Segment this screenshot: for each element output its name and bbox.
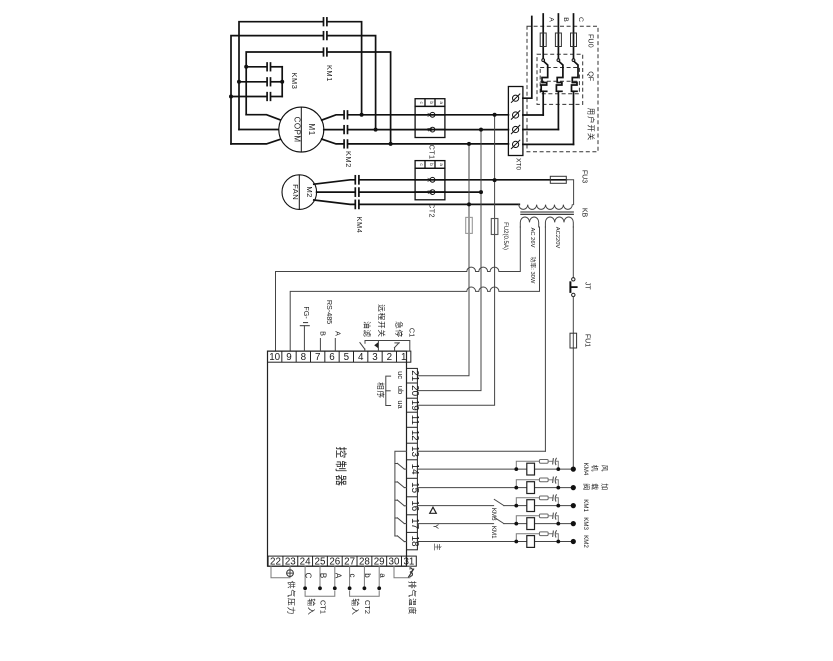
svg-text:22: 22: [270, 557, 281, 568]
contactor KM2 contact 2: [344, 126, 347, 134]
wire phase B sense to terminal 20: [417, 130, 481, 391]
wire M2 phase 1 to CT2: [314, 180, 567, 184]
svg-text:CT2: CT2: [363, 600, 372, 614]
svg-text:CT1: CT1: [319, 600, 328, 614]
wire CT1 input A terminal 26: [333, 566, 343, 590]
junction node KM3-2: [237, 80, 241, 84]
wire M1 phase 1 to CT1 and XT0: [322, 115, 509, 120]
svg-text:排气温度: 排气温度: [407, 581, 417, 615]
wire M1 phase 3 to XT0: [322, 139, 509, 144]
svg-text:a: a: [439, 101, 444, 104]
current transformer CT2: [415, 161, 445, 200]
svg-text:功率: 30W: 功率: 30W: [529, 257, 537, 284]
wire KM3 star line 1: [246, 66, 282, 68]
XT0 terminal 3: [511, 125, 520, 134]
svg-text:6: 6: [329, 352, 335, 363]
svg-text:QF: QF: [587, 71, 596, 82]
label 风机 KM4: [582, 463, 608, 476]
bracket 相序: [386, 376, 391, 405]
user switch dashed enclosure 用户开关: [527, 26, 598, 151]
svg-text:12: 12: [409, 430, 420, 441]
snubber RC row 15: [516, 476, 558, 487]
transformer KB secondary 220V winding: [545, 217, 573, 227]
internal relay contact 17: [395, 518, 407, 524]
svg-text:KM1: KM1: [490, 526, 497, 539]
svg-text:3: 3: [372, 352, 378, 363]
junction node A-line1: [493, 113, 497, 117]
wire relay row 15: [417, 487, 573, 489]
relay coil KM2 row 18: [527, 536, 535, 548]
svg-text:主: 主: [433, 543, 443, 551]
wire 26V secondary left lead to controller terminal 10: [276, 227, 521, 351]
svg-text:B: B: [425, 128, 431, 132]
contactor KM1 contact 1: [324, 18, 327, 26]
wire RS-485 A to terminal 6: [333, 331, 342, 351]
junction nodes row 15: [514, 485, 576, 490]
svg-text:KM3: KM3: [490, 508, 497, 521]
wire M2 phase 3: [314, 200, 520, 204]
wire CT2 input c terminal 27: [348, 566, 358, 590]
svg-text:KM3: KM3: [290, 73, 299, 90]
wire C1 rail: [365, 341, 410, 352]
svg-text:相序: 相序: [376, 382, 386, 399]
motor M1 COPM: [279, 107, 324, 152]
svg-text:KM2: KM2: [582, 535, 589, 548]
wire terminal 13 to 220V feed: [417, 450, 545, 452]
wire 220V secondary left lead to controller terminal 13: [544, 227, 546, 451]
bracket CT2 input: [350, 591, 380, 596]
wire relay row 16 with KM3 interlock: [417, 499, 573, 505]
svg-text:uc: uc: [396, 371, 405, 379]
svg-text:M2: M2: [305, 186, 314, 197]
controller bottom terminal row pins 22..31: [268, 556, 416, 567]
junction node L3-C: [389, 142, 393, 146]
svg-text:5: 5: [344, 352, 350, 363]
svg-text:11: 11: [409, 415, 420, 425]
svg-text:AC 26V: AC 26V: [529, 228, 535, 248]
wire neutral N to XT0 terminal 1: [523, 17, 532, 99]
internal relay contact 18: [395, 536, 407, 542]
svg-text:急停: 急停: [394, 321, 404, 338]
relay coil KM4 row 14: [527, 463, 535, 475]
junction node KM3 star point: [280, 80, 284, 84]
wire relay row 14: [417, 468, 573, 470]
wire RS-485 B to terminal 7: [318, 331, 327, 351]
wire relay row 18: [417, 541, 573, 543]
wire supply phase B: [557, 14, 559, 59]
wire M1 lead top-left: [246, 115, 281, 120]
svg-text:FG-: FG-: [302, 306, 311, 319]
svg-text:23: 23: [285, 557, 296, 568]
svg-text:油滤: 油滤: [362, 321, 372, 338]
svg-text:C1: C1: [407, 328, 416, 337]
snubber RC row 18: [516, 530, 558, 541]
svg-text:CT2: CT2: [427, 203, 436, 218]
fuse FU1: [570, 333, 577, 348]
contactor KM4 contact 2: [355, 188, 359, 196]
svg-text:c: c: [348, 574, 357, 578]
wire CT1 input C terminal 24: [303, 566, 313, 590]
svg-text:输入: 输入: [306, 598, 316, 615]
contactor KM1 contact 2: [324, 32, 327, 40]
contactor KM2 contact 3: [344, 140, 347, 148]
svg-text:风: 风: [600, 465, 608, 472]
breaker QF dashed box: [537, 54, 583, 104]
current transformer CT1: [415, 99, 445, 138]
transformer KB core: [520, 212, 574, 214]
svg-text:9: 9: [286, 352, 291, 363]
wire supply phase A: [542, 14, 544, 59]
svg-text:A: A: [333, 573, 342, 579]
svg-text:载: 载: [590, 483, 599, 490]
pressure sensor 供气压力 terminals 22-23: [271, 566, 293, 578]
svg-text:FU2(0.5A): FU2(0.5A): [502, 222, 508, 250]
svg-text:M1: M1: [307, 124, 316, 136]
svg-text:FAN: FAN: [291, 184, 300, 200]
snubber RC row 17: [516, 512, 558, 523]
wire phase C sense to terminal 21: [417, 144, 469, 376]
svg-text:4: 4: [358, 352, 364, 363]
svg-text:远程开关: 远程开关: [377, 304, 387, 338]
svg-text:KM3: KM3: [582, 517, 589, 530]
transformer KB primary winding: [519, 205, 573, 210]
svg-text:8: 8: [301, 352, 307, 363]
svg-text:b: b: [429, 163, 434, 166]
wire JT to fuse FU1: [572, 297, 574, 470]
svg-text:20: 20: [409, 385, 420, 396]
XT0 terminal 4: [511, 140, 520, 149]
wire 26V secondary right lead to controller terminal 9: [290, 227, 539, 351]
contactor KM2 contact 1: [344, 111, 347, 119]
switch 远程开关 contact above terminal 4: [360, 341, 365, 352]
wire M2 phase 2 to CT2: [317, 191, 481, 193]
svg-text:CT1: CT1: [427, 145, 436, 160]
svg-text:FU0: FU0: [587, 34, 596, 48]
svg-text:31: 31: [403, 557, 414, 568]
wire QF pole B output to XT0 terminal 3: [523, 129, 559, 131]
wire KM1 loop phase 2: [231, 36, 376, 144]
wire KM1 loop phase 3: [246, 52, 390, 144]
wire M1 phase 2 to CT1 and XT0: [324, 129, 509, 131]
junction node KM3-1: [244, 65, 248, 69]
junction node L1-A: [360, 113, 364, 117]
svg-text:FU3: FU3: [581, 170, 588, 183]
junction node B-fan2: [479, 190, 483, 194]
svg-text:KM4: KM4: [355, 217, 364, 234]
wire 220V secondary right lead to switch JT: [572, 227, 574, 278]
contactor KM3 contact 1: [267, 63, 270, 71]
svg-text:FU1: FU1: [583, 334, 590, 347]
svg-text:供气压力: 供气压力: [287, 581, 297, 615]
contactor KM3 contact 2: [267, 78, 270, 86]
svg-text:10: 10: [269, 352, 280, 363]
svg-text:a: a: [378, 573, 387, 578]
wire QF pole C output to XT0 terminal 4: [523, 143, 574, 145]
fuse FU0 pole C: [571, 33, 577, 47]
wire M1 lead mid-left: [239, 129, 279, 131]
svg-text:1: 1: [401, 352, 406, 363]
svg-text:C: C: [304, 573, 313, 579]
motor M2 FAN: [282, 175, 317, 210]
svg-text:控制器: 控制器: [334, 447, 348, 489]
svg-text:KM1: KM1: [325, 65, 334, 82]
pushbutton 急停 above terminal 3: [374, 341, 378, 352]
switch contact above terminal 2: [394, 343, 399, 351]
junction node B-line2: [479, 128, 483, 132]
svg-text:A: A: [547, 17, 554, 22]
controller 控制器 main box: [268, 351, 407, 566]
svg-text:7: 7: [315, 352, 320, 363]
svg-text:a: a: [439, 163, 444, 166]
svg-text:输入: 输入: [351, 598, 361, 615]
junction node L2-B: [374, 128, 378, 132]
svg-text:21: 21: [409, 370, 420, 381]
svg-text:KM1: KM1: [582, 499, 589, 512]
svg-text:C: C: [577, 17, 584, 22]
snubber RC row 16: [516, 494, 558, 505]
junction node KM3-3: [229, 95, 233, 99]
svg-text:RS-485: RS-485: [325, 300, 334, 324]
svg-text:ua: ua: [396, 400, 405, 409]
marker delta: [430, 507, 437, 513]
wire M1 lead bottom-left: [231, 139, 281, 144]
relay coil KM3 row 17: [527, 518, 535, 530]
fuse FU0 pole A: [540, 33, 546, 47]
breaker QF pole A: [541, 59, 548, 115]
label CT2 输入: [351, 598, 372, 615]
svg-text:COPM: COPM: [292, 117, 301, 143]
junction node A-FU3: [493, 178, 497, 182]
junction node C-line3: [467, 142, 471, 146]
switch JT: [570, 278, 577, 297]
svg-text:B: B: [562, 17, 569, 22]
svg-text:B: B: [319, 573, 328, 578]
svg-text:阀: 阀: [582, 483, 591, 490]
contactor KM4 contact 3: [355, 200, 359, 208]
breaker QF pole C: [572, 59, 579, 145]
svg-text:b: b: [429, 101, 434, 104]
svg-text:B: B: [318, 331, 327, 336]
transformer KB secondary 26V winding: [520, 217, 538, 227]
relay coil loading valve row 15: [527, 482, 535, 494]
svg-text:2: 2: [387, 352, 392, 363]
svg-text:Y: Y: [432, 524, 441, 529]
junction nodes row 17: [514, 521, 576, 526]
svg-text:A: A: [425, 178, 431, 182]
wire CT2 input b terminal 28: [363, 566, 373, 590]
fuse FU0 pole B: [555, 33, 561, 47]
svg-text:AC220V: AC220V: [554, 227, 560, 249]
wire CT2 input a terminal 29: [377, 566, 386, 590]
svg-text:b: b: [363, 573, 372, 578]
label CT1 输入: [306, 598, 327, 615]
snubber RC row 14: [516, 458, 558, 469]
fuse FU3: [550, 176, 566, 183]
svg-text:19: 19: [409, 400, 420, 411]
svg-text:XT0: XT0: [515, 158, 522, 170]
wire KM3 star bar: [281, 67, 283, 97]
svg-text:B: B: [425, 190, 431, 194]
XT0 terminal 2: [511, 110, 520, 119]
svg-text:KM4: KM4: [582, 463, 589, 476]
controller top terminal row pins 10..1: [268, 351, 411, 363]
temperature sensor 排气温度 terminals 30-31: [394, 566, 414, 578]
contactor KM3 contact 3: [267, 93, 270, 101]
wire relay row 17 with KM1 interlock: [417, 517, 573, 523]
ground symbol FG: [300, 306, 311, 351]
label 加载阀: [582, 483, 609, 490]
contactor KM4 contact 1: [355, 176, 359, 184]
svg-text:机: 机: [590, 465, 599, 472]
relay coil KM1 row 16: [527, 500, 535, 512]
junction node C-fan3: [467, 202, 471, 206]
wire FU3 to KB primary: [566, 180, 573, 205]
wire KM3 star line 3: [231, 96, 282, 98]
controller internal relay common bus: [395, 451, 407, 536]
bracket CT1 input: [305, 591, 335, 596]
svg-text:A: A: [333, 331, 342, 336]
svg-text:ub: ub: [396, 386, 405, 394]
fuse FU2 phase A: [491, 219, 498, 235]
breaker QF pole B: [556, 59, 563, 130]
svg-text:KB: KB: [581, 208, 588, 218]
XT0 terminal 1: [511, 94, 520, 103]
wire QF pole A output to XT0 terminal 2: [523, 114, 543, 116]
wire CT1 input B terminal 25: [318, 566, 328, 590]
svg-text:KM2: KM2: [344, 151, 353, 168]
svg-text:用户开关: 用户开关: [587, 108, 596, 142]
wire KM3 star line 2: [239, 81, 282, 83]
junction nodes row 14: [514, 467, 576, 472]
wire phase A sense to terminal 19: [417, 115, 494, 405]
svg-text:加: 加: [600, 483, 609, 490]
terminal strip XT0: [508, 87, 523, 156]
junction nodes row 18: [514, 539, 576, 544]
internal relay contact 14: [395, 463, 407, 469]
svg-text:JT: JT: [583, 282, 590, 291]
contactor KM1 contact 3: [324, 48, 327, 56]
internal relay contact 16: [395, 500, 407, 506]
controller right terminal column: [407, 368, 421, 549]
junction nodes row 16: [514, 503, 576, 508]
fuse FU2 phase C: [466, 217, 473, 233]
svg-text:A: A: [425, 113, 431, 117]
internal relay contact 15: [395, 482, 407, 488]
wire supply phase C: [573, 14, 575, 59]
wire KM1 loop phase 1: [239, 22, 362, 130]
